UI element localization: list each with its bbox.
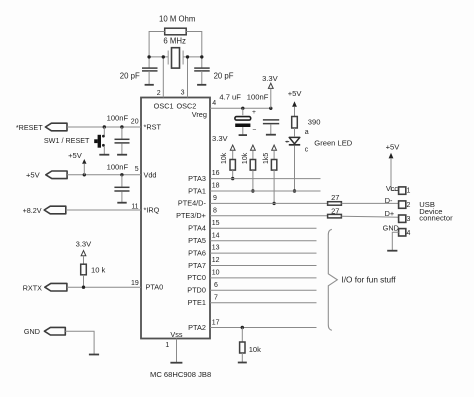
ground under USB <box>387 250 397 252</box>
wire PTA0 net <box>67 286 141 288</box>
svg-text:a: a <box>305 129 309 136</box>
pin number 5 <box>135 166 139 173</box>
pin number 19 <box>131 280 139 287</box>
svg-text:13: 13 <box>212 245 220 252</box>
svg-text:3: 3 <box>407 216 411 223</box>
svg-text:3.3V: 3.3V <box>76 240 93 249</box>
svg-text:PTA4: PTA4 <box>188 224 206 233</box>
wire USB GND to ground <box>392 232 398 250</box>
pin number 8 <box>213 207 217 214</box>
svg-text:MC 68HC908 JB8: MC 68HC908 JB8 <box>150 370 211 379</box>
ground under R 10k PTA2 <box>238 362 247 364</box>
svg-text:+: + <box>252 109 256 116</box>
svg-text:9: 9 <box>213 195 217 202</box>
LED D1 Green LED <box>285 129 353 154</box>
pin number 18 <box>212 183 220 190</box>
svg-text:3.3V: 3.3V <box>212 134 229 143</box>
svg-text:6: 6 <box>214 282 218 289</box>
svg-text:*RST: *RST <box>144 123 162 132</box>
svg-text:10k: 10k <box>249 345 261 354</box>
svg-text:Vdd: Vdd <box>144 170 157 179</box>
connector RXTX <box>23 283 67 292</box>
resistor R 10 M Ohm <box>159 15 195 35</box>
svg-text:SW1 / RESET: SW1 / RESET <box>44 136 90 145</box>
wire RESET net <box>67 126 141 128</box>
pin number 16 <box>212 170 220 177</box>
pin number 9 <box>213 195 217 202</box>
wire PTA1 pin 18 <box>210 190 321 192</box>
svg-text:PTC0: PTC0 <box>187 273 206 282</box>
node LED to line18 <box>293 189 296 192</box>
power 3.3V arrow on Vreg <box>262 74 279 108</box>
label USB Device connector <box>419 200 453 222</box>
power +5V arrow LED <box>288 89 303 117</box>
svg-text:10k: 10k <box>242 152 249 164</box>
svg-text:PTA7: PTA7 <box>188 261 206 270</box>
svg-text:6 MHz: 6 MHz <box>163 36 186 45</box>
svg-text:2: 2 <box>157 90 161 97</box>
svg-text:D+: D+ <box>385 209 395 218</box>
svg-text:+5V: +5V <box>386 142 401 151</box>
ground under GND connector <box>89 354 99 356</box>
capacitor C1 20 pF left <box>120 68 158 84</box>
power arrow pullup 2 <box>251 145 256 159</box>
svg-text:Vss: Vss <box>170 330 183 339</box>
node Vreg junctions <box>241 107 272 110</box>
crystal Y1 6 MHz <box>163 36 186 68</box>
wire pin3 to OSC2 <box>187 57 189 98</box>
svg-text:Vreg: Vreg <box>192 110 207 119</box>
resistor R 27 D- <box>328 193 342 205</box>
capacitor C2 20 pF right <box>194 68 234 84</box>
pin number 14 <box>212 232 220 239</box>
pin number 7 <box>214 294 218 301</box>
svg-text:19: 19 <box>131 280 139 287</box>
ground under C2 <box>197 84 206 86</box>
resistor R 10k PTA2 <box>240 328 262 363</box>
svg-text:PTA0: PTA0 <box>146 283 164 292</box>
svg-text:5: 5 <box>135 166 139 173</box>
node Vdd junctions <box>83 173 124 176</box>
wire LED cathode to PTA1 <box>294 146 296 191</box>
svg-text:100nF: 100nF <box>247 93 269 102</box>
svg-text:10: 10 <box>212 270 220 277</box>
pin number 10 <box>212 270 220 277</box>
svg-text:16: 16 <box>212 170 220 177</box>
pin number 12 <box>212 257 220 264</box>
wire PTE1 pin 7 <box>210 302 317 304</box>
power arrow pullup 1 <box>230 145 235 159</box>
wire PTA4 pin 15 <box>210 227 317 229</box>
svg-text:PTA5: PTA5 <box>188 236 206 245</box>
pin number 3 <box>181 90 185 97</box>
svg-text:8: 8 <box>213 207 217 214</box>
wire PTA2 pin 17 <box>210 327 317 329</box>
power 3.3V label pullups <box>212 134 229 143</box>
USB connector J1 pin 3 <box>385 209 411 223</box>
resistor R 10 k RXTX <box>81 264 106 287</box>
IC part label MC 68HC908 JB8 <box>150 370 211 379</box>
svg-text:*RESET: *RESET <box>16 123 43 132</box>
svg-text:27: 27 <box>331 193 339 202</box>
resistor R 390 <box>292 117 321 137</box>
svg-text:GND: GND <box>24 327 40 336</box>
svg-text:GND: GND <box>383 224 399 233</box>
svg-text:4: 4 <box>407 230 411 237</box>
svg-text:3.3V: 3.3V <box>262 74 279 83</box>
wire Vdd net <box>67 174 141 176</box>
svg-text:PTA2: PTA2 <box>188 323 206 332</box>
USB connector J1 pin 2 <box>385 196 411 209</box>
ground under C6 <box>266 134 276 136</box>
svg-text:100nF: 100nF <box>107 163 129 172</box>
svg-text:I/O for fun stuff: I/O for fun stuff <box>342 275 397 284</box>
pin number 20 <box>131 119 139 126</box>
power arrow pullup 3 <box>272 145 277 159</box>
svg-text:4: 4 <box>212 100 216 107</box>
pin number 17 <box>212 320 220 327</box>
wire 10M left lead <box>149 32 165 69</box>
resistor R 10k pullup PTA1 <box>242 152 255 191</box>
connector *RESET <box>16 123 67 132</box>
svg-text:14: 14 <box>212 232 220 239</box>
node OSC1 junctions <box>147 55 165 58</box>
svg-text:+5V: +5V <box>26 171 41 180</box>
connector +8.2V <box>23 206 66 215</box>
wire PTA5 pin 14 <box>210 240 317 242</box>
node PTA2 junction <box>241 326 244 329</box>
wire 10M right lead <box>186 32 202 69</box>
svg-text:connector: connector <box>419 214 453 223</box>
power 3.3V arrow RXTX pullup <box>76 240 93 265</box>
wire PTA6 pin 13 <box>210 252 317 254</box>
wire PTC0 pin 10 <box>210 277 317 279</box>
wire Vss pin 1 <box>176 339 178 363</box>
wire Vreg pin 4 net <box>210 107 271 109</box>
wire D- pin 9 left segment <box>210 202 328 204</box>
node RESET junctions <box>103 125 124 128</box>
power +5V arrow on Vdd <box>68 151 86 175</box>
ground under SW1 <box>99 154 109 156</box>
ground under Vss <box>170 362 182 364</box>
svg-text:+8.2V: +8.2V <box>23 206 42 215</box>
svg-text:10 M Ohm: 10 M Ohm <box>159 15 195 24</box>
power +5V arrow USB Vcc <box>386 142 401 190</box>
svg-text:17: 17 <box>212 320 220 327</box>
capacitor C5 4.7 uF <box>219 93 256 135</box>
svg-text:10k: 10k <box>221 152 228 164</box>
brace I/O group <box>328 229 396 330</box>
capacitor C6 100nF Vreg <box>247 93 279 135</box>
node OSC2 junctions <box>186 55 204 58</box>
svg-text:18: 18 <box>212 183 220 190</box>
resistor R 27 D+ <box>328 206 342 218</box>
resistor R 10k pullup PTA3 <box>221 152 236 178</box>
ground under C3 <box>117 154 127 156</box>
capacitor C4 100nF Vdd <box>107 163 130 203</box>
USB connector J1 pin 4 <box>383 224 411 237</box>
svg-text:2: 2 <box>407 202 411 209</box>
svg-text:PTA3: PTA3 <box>188 174 206 183</box>
svg-text:RXTX: RXTX <box>23 283 42 292</box>
svg-text:20 pF: 20 pF <box>120 71 140 80</box>
svg-text:OSC1: OSC1 <box>154 102 174 111</box>
svg-text:15: 15 <box>212 220 220 227</box>
IC U1 MC 68HC908 JB8 <box>141 98 210 339</box>
pin number 1 <box>165 342 169 349</box>
svg-text:D-: D- <box>385 196 393 205</box>
wire pin2 to OSC1 <box>162 57 164 98</box>
svg-text:c: c <box>305 146 309 153</box>
svg-text:3: 3 <box>181 90 185 97</box>
wire IRQ net <box>66 209 141 211</box>
node pullup1 to line16 <box>231 177 234 180</box>
capacitor C3 100nF reset <box>107 113 130 154</box>
node pullup2 to line18 <box>251 189 254 192</box>
svg-text:PTA6: PTA6 <box>188 248 206 257</box>
wire PTD0 pin 6 <box>210 289 317 291</box>
svg-text:+5V: +5V <box>288 89 303 98</box>
svg-text:PTE3/D+: PTE3/D+ <box>176 211 206 220</box>
svg-text:Green LED: Green LED <box>314 138 353 147</box>
svg-text:20 pF: 20 pF <box>214 71 234 80</box>
wire PTA3 pin 16 <box>210 178 321 180</box>
wire D+ to USB pin 3 <box>341 216 398 217</box>
ground under C1 <box>145 84 154 86</box>
svg-text:PTE1: PTE1 <box>188 298 206 307</box>
connector +5V <box>26 171 67 180</box>
svg-text:−: − <box>253 127 257 134</box>
connector GND <box>24 327 65 336</box>
svg-text:PTA1: PTA1 <box>188 186 206 195</box>
resistor R 1k5 pullup D- <box>263 153 277 204</box>
svg-text:PTE4/D-: PTE4/D- <box>178 199 207 208</box>
svg-text:PTD0: PTD0 <box>187 286 206 295</box>
svg-text:100nF: 100nF <box>107 113 129 122</box>
pin number 11 <box>131 203 138 210</box>
wire PTA7 pin 12 <box>210 265 317 267</box>
wire Vcc to USB pin 1 <box>391 190 399 192</box>
pin number 15 <box>212 220 220 227</box>
svg-text:1k5: 1k5 <box>263 153 270 164</box>
svg-text:10 k: 10 k <box>91 266 106 275</box>
wire D+ pin 8 left segment <box>210 215 328 217</box>
switch SW1 / RESET <box>44 127 105 154</box>
svg-text:+5V: +5V <box>68 151 83 160</box>
svg-text:4.7 uF: 4.7 uF <box>219 93 241 102</box>
USB connector J1 pin 1 <box>386 184 411 194</box>
svg-text:*IRQ: *IRQ <box>144 205 160 214</box>
svg-text:390: 390 <box>308 118 321 127</box>
wire OSC1 net <box>149 56 168 58</box>
ground under C4 <box>117 202 126 204</box>
svg-text:1: 1 <box>165 342 169 349</box>
svg-text:Vcc: Vcc <box>386 184 399 193</box>
svg-text:7: 7 <box>214 294 218 301</box>
svg-text:1: 1 <box>407 187 411 194</box>
pin number 2 <box>157 90 161 97</box>
pin number 4 <box>212 100 216 107</box>
svg-text:11: 11 <box>131 203 138 210</box>
svg-text:20: 20 <box>131 119 139 126</box>
wire D- to USB pin 2 <box>341 202 398 204</box>
node pullup3 to line9 <box>272 202 275 205</box>
ground under C5 <box>239 134 247 136</box>
wire GND net <box>65 331 94 354</box>
node PTA0 junction <box>82 286 85 289</box>
pin number 13 <box>212 245 220 252</box>
svg-text:12: 12 <box>212 257 220 264</box>
pin number 6 <box>214 282 218 289</box>
wire OSC2 net <box>183 56 202 58</box>
